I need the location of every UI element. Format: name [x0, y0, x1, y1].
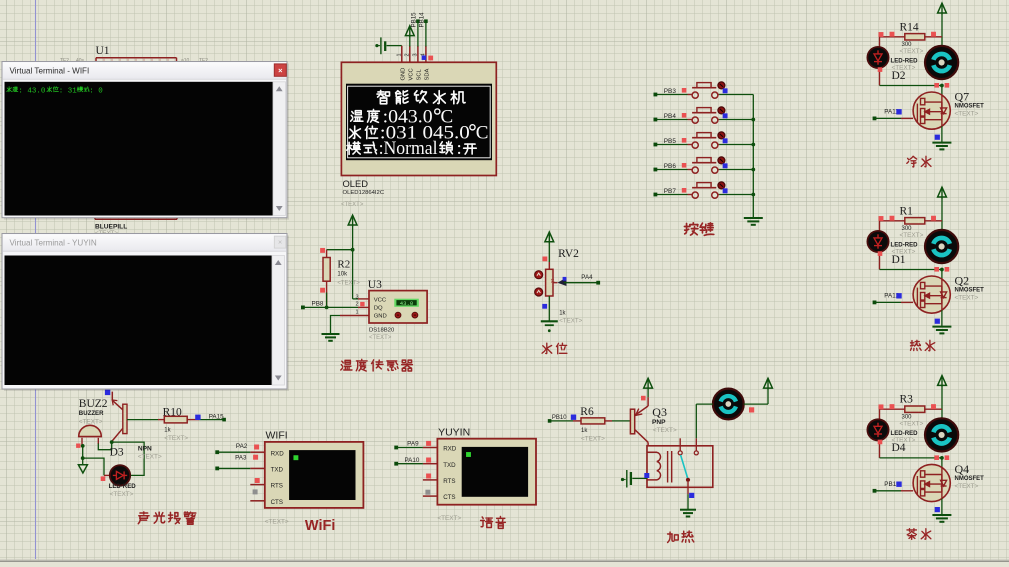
svg-text:<TEXT>: <TEXT>	[900, 232, 924, 239]
svg-text:TXD: TXD	[443, 462, 456, 469]
svg-text:PA2: PA2	[236, 443, 248, 450]
svg-text:SCL: SCL	[417, 68, 423, 80]
svg-text:NPN: NPN	[138, 446, 152, 453]
svg-text:RTS: RTS	[271, 483, 283, 490]
svg-text:PNP: PNP	[652, 419, 666, 426]
svg-text:RTS: RTS	[443, 478, 455, 485]
svg-text:R1: R1	[900, 205, 914, 217]
svg-text:WIFI: WIFI	[266, 430, 288, 442]
svg-text:R3: R3	[900, 394, 914, 406]
svg-text:Virtual Terminal - WIFI: Virtual Terminal - WIFI	[10, 67, 90, 76]
svg-text:×: ×	[278, 66, 283, 75]
svg-text:RXD: RXD	[443, 446, 457, 453]
svg-text:PB14: PB14	[419, 12, 426, 28]
svg-text:U1: U1	[96, 45, 110, 57]
svg-text:<TEXT>: <TEXT>	[955, 483, 979, 490]
svg-text:: 0: : 0	[89, 87, 103, 95]
svg-text:NMOSFET: NMOSFET	[955, 476, 985, 482]
svg-text:BUZZER: BUZZER	[79, 410, 104, 417]
svg-text:2: 2	[405, 53, 411, 56]
svg-text:<TEXT>: <TEXT>	[110, 491, 134, 498]
svg-text:1k: 1k	[164, 428, 171, 434]
svg-text:DQ: DQ	[374, 306, 383, 312]
svg-text:GND: GND	[374, 313, 387, 319]
svg-text:CTS: CTS	[443, 494, 455, 501]
svg-text:<TEXT>: <TEXT>	[164, 435, 188, 442]
svg-text:<TEXT>: <TEXT>	[437, 515, 461, 522]
svg-text:1k: 1k	[581, 428, 588, 434]
svg-text:D3: D3	[110, 447, 124, 459]
svg-text:D1: D1	[892, 254, 906, 266]
svg-text:DS18B20: DS18B20	[369, 327, 395, 333]
svg-text:<TEXT>: <TEXT>	[559, 318, 582, 325]
svg-text:Q4: Q4	[955, 462, 970, 476]
svg-text:R10: R10	[163, 407, 182, 419]
svg-text:Virtual Terminal - YUYIN: Virtual Terminal - YUYIN	[10, 239, 97, 248]
svg-text:LED-RED: LED-RED	[109, 483, 137, 490]
svg-text:NMOSFET: NMOSFET	[955, 104, 985, 110]
svg-text:U3: U3	[368, 279, 382, 291]
svg-text:3: 3	[413, 53, 419, 56]
svg-text:<TEXT>: <TEXT>	[900, 48, 924, 55]
svg-text:PA10: PA10	[404, 457, 419, 464]
svg-text:C: C	[476, 122, 489, 143]
svg-text:×: ×	[278, 238, 282, 247]
svg-text:: 31: : 31	[59, 87, 78, 95]
svg-text:<TEXT>: <TEXT>	[265, 518, 289, 525]
svg-text:RXD: RXD	[271, 450, 285, 457]
svg-text:R6: R6	[580, 406, 594, 418]
svg-text:PA15: PA15	[209, 413, 224, 420]
svg-text:CTS: CTS	[271, 499, 283, 506]
svg-text:10k: 10k	[337, 271, 348, 277]
svg-text:: 43.0: : 43.0	[18, 87, 46, 95]
svg-text:WiFi: WiFi	[305, 518, 335, 534]
svg-text:<TEXT>: <TEXT>	[138, 453, 162, 460]
svg-text:1: 1	[355, 309, 358, 315]
svg-text:GND: GND	[400, 68, 406, 81]
svg-text:R14: R14	[900, 21, 919, 33]
svg-text:NMOSFET: NMOSFET	[955, 288, 985, 294]
svg-text:PB1: PB1	[884, 481, 896, 488]
svg-text:<TEXT>: <TEXT>	[341, 202, 364, 208]
svg-text:TXD: TXD	[271, 467, 284, 474]
svg-text:<TEXT>: <TEXT>	[955, 294, 979, 301]
svg-text:2: 2	[355, 302, 358, 308]
svg-text:PB8: PB8	[312, 300, 324, 307]
svg-text:PA9: PA9	[407, 440, 419, 447]
svg-text:<TEXT>: <TEXT>	[337, 280, 360, 286]
svg-text:Q7: Q7	[955, 90, 970, 104]
svg-text:1: 1	[397, 53, 403, 56]
svg-text:3: 3	[355, 294, 358, 300]
svg-text:VCC: VCC	[374, 298, 387, 304]
svg-text:<TEXT>: <TEXT>	[900, 421, 924, 428]
svg-text:OLED: OLED	[343, 178, 369, 189]
svg-text:PB15: PB15	[411, 12, 418, 28]
svg-text:SDA: SDA	[425, 68, 431, 80]
svg-text:PA3: PA3	[235, 454, 247, 461]
svg-text:VCC: VCC	[408, 68, 414, 80]
svg-text:<TEXT>: <TEXT>	[581, 435, 605, 442]
svg-text:BUZ2: BUZ2	[79, 398, 108, 410]
svg-text:Q3: Q3	[652, 405, 667, 419]
svg-text:<TEXT>: <TEXT>	[955, 110, 979, 117]
svg-text:RV2: RV2	[558, 248, 579, 260]
svg-text:43.0: 43.0	[400, 300, 414, 307]
svg-text:PA4: PA4	[581, 274, 593, 281]
svg-text:1k: 1k	[559, 311, 566, 317]
svg-text:YUYIN: YUYIN	[438, 426, 470, 438]
svg-text:<TEXT>: <TEXT>	[369, 335, 392, 341]
svg-text::Normal: :Normal	[379, 138, 438, 159]
svg-text:D4: D4	[892, 442, 906, 454]
svg-text::: :	[457, 138, 462, 159]
svg-text:Q2: Q2	[955, 274, 970, 288]
svg-text:<TEXT>: <TEXT>	[653, 427, 677, 434]
svg-text:OLED12864I2C: OLED12864I2C	[343, 190, 385, 196]
svg-text:R2: R2	[337, 259, 350, 271]
svg-text:D2: D2	[892, 70, 906, 82]
